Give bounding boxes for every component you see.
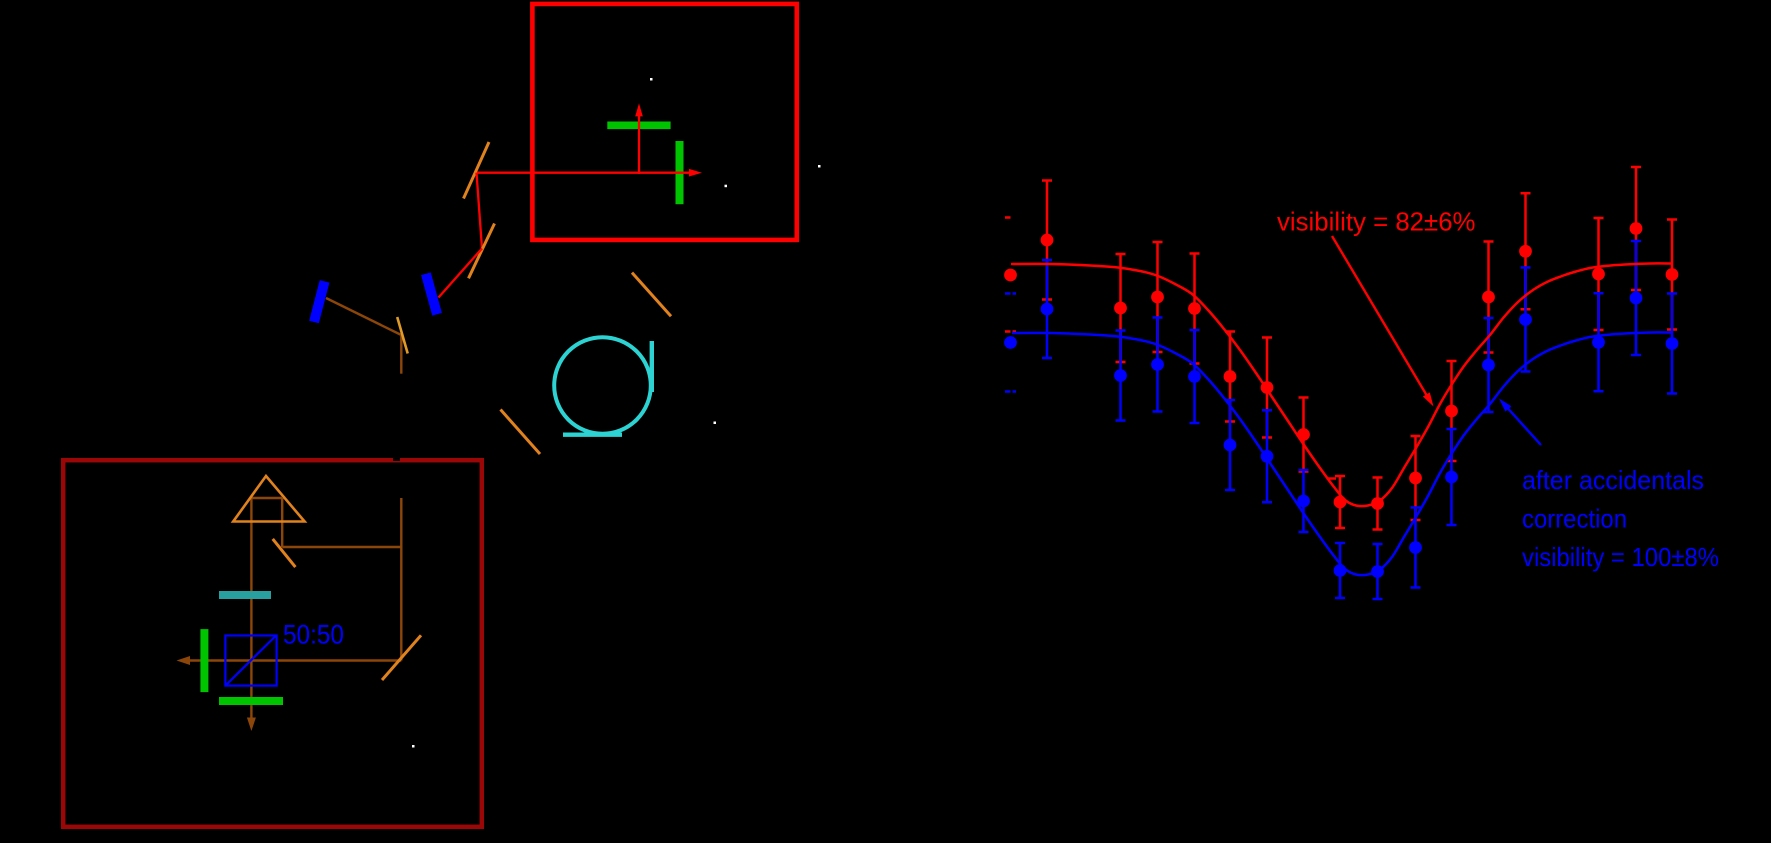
red data points: [1004, 222, 1678, 510]
mirror D (orange, above loop): [632, 273, 671, 317]
clipped error-bar caps at plot left edge: [1005, 216, 1011, 219]
fiber loop (cyan circle): [554, 337, 651, 434]
mirror B (orange, middle): [469, 224, 495, 279]
mirror E (orange, below loop): [501, 410, 541, 455]
red vertical arrow in analyzer 1: [635, 103, 643, 174]
blue error bars: [1042, 241, 1677, 599]
pump beam (brown) M1 to bend: [326, 298, 401, 335]
blue mirror M2: [421, 272, 442, 315]
red beam segment diagonal: [439, 249, 483, 298]
svg-text:after accidentals: after accidentals: [1522, 465, 1704, 495]
beam: vertical right: [400, 498, 402, 661]
beam: short vertical right of prism: [281, 498, 283, 547]
white speck d: [412, 745, 415, 748]
beam: horizontal to left arrow: [186, 659, 401, 661]
50:50 beamsplitter cube: [225, 636, 276, 686]
svg-text:visibility = 82±6%: visibility = 82±6%: [1277, 207, 1476, 237]
mirror A (orange, top): [464, 142, 490, 199]
notch in box border: [393, 458, 400, 461]
pump beam (brown) vertical below bend: [400, 335, 402, 374]
filter (teal bar): [219, 591, 271, 599]
svg-text:correction: correction: [1522, 504, 1627, 534]
red beam segment vertical: [477, 173, 483, 249]
prism triangle: [233, 476, 304, 522]
blue fit curve: [1012, 332, 1672, 575]
white speck e: [714, 422, 717, 425]
polarizer V (green vertical bar, analyzer 1): [676, 141, 684, 204]
polarizer (green vertical bar, box 2): [200, 629, 208, 692]
polarizer (green horizontal bar, box 2): [219, 697, 283, 705]
stray red cap: [1327, 477, 1336, 480]
white speck c: [818, 165, 821, 168]
red error bars: [1042, 167, 1677, 530]
beam: horizontal mid: [282, 546, 401, 548]
blue mirror M1: [309, 280, 329, 323]
svg-text:visibility = 100±8%: visibility = 100±8%: [1522, 542, 1719, 572]
svg-text:50:50: 50:50: [283, 620, 344, 650]
red beam into analyzer 1 (horizontal arrow): [477, 169, 702, 177]
mirror G (diagonal right in box): [382, 635, 421, 680]
polarizer H (green horizontal bar, analyzer 1): [607, 122, 670, 130]
fiber lead horizontal: [563, 433, 622, 437]
white speck a: [650, 78, 653, 81]
beam: vertical through prism to detector arrow: [250, 498, 252, 721]
mirror C (light orange at bend): [397, 317, 408, 354]
blue data points: [1004, 292, 1678, 578]
analyzer box 2 (dark red): [63, 460, 482, 827]
analyzer box 1 (top red inset): [532, 4, 796, 240]
blue annotation arrow: [1499, 399, 1541, 446]
beam: horizontal chord in prism: [251, 497, 282, 499]
mirror F (small diagonal in box): [273, 539, 296, 567]
red annotation arrow: [1332, 236, 1434, 407]
fiber lead vertical: [650, 341, 654, 392]
red fit curve: [1011, 263, 1672, 506]
white speck b: [725, 185, 728, 188]
